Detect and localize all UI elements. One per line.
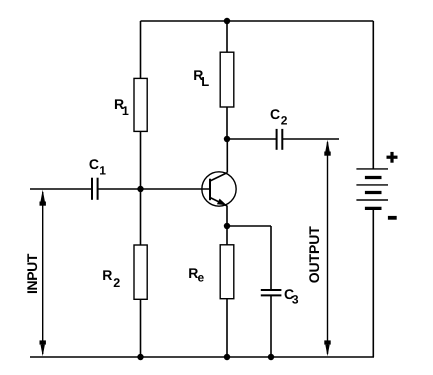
node: junction dot ground / Re bbox=[224, 354, 230, 360]
label C1 bbox=[89, 156, 106, 178]
wire: base node to transistor base bbox=[141, 188, 211, 190]
svg-text:1: 1 bbox=[99, 163, 106, 177]
wire: collector node to transistor collector bbox=[226, 139, 228, 173]
wire: emitter node to C3 branch bbox=[227, 225, 271, 227]
svg-text:C: C bbox=[89, 156, 99, 172]
wire: Re bottom to ground rail bbox=[226, 299, 228, 357]
node: junction dot emitter / Re / C3 bbox=[224, 223, 230, 229]
wire: right rail lower (from battery -) bbox=[372, 209, 374, 358]
capacitor C3 bbox=[261, 290, 282, 295]
resistor R1 bbox=[134, 78, 147, 131]
svg-text:e: e bbox=[198, 271, 205, 285]
svg-text:INPUT: INPUT bbox=[24, 253, 40, 294]
capacitor C2 bbox=[277, 129, 283, 150]
wire: emitter node to Re bbox=[226, 226, 228, 245]
svg-text:R: R bbox=[102, 267, 112, 283]
wire: emitter down to emitter node bbox=[226, 206, 228, 226]
battery plus terminal label bbox=[387, 152, 398, 163]
wire: top supply rail bbox=[141, 20, 374, 22]
wire: R1 bottom to base node bbox=[140, 131, 142, 189]
wire: RL top bbox=[226, 21, 228, 52]
wire: R2 bottom to ground rail bbox=[140, 299, 142, 357]
wire: R1 top bbox=[140, 21, 142, 78]
svg-text:L: L bbox=[201, 74, 209, 89]
node: junction dot ground / R2 bbox=[137, 354, 143, 360]
node: junction dot top rail / RL bbox=[224, 18, 230, 24]
node: junction dot collector / C2 bbox=[224, 136, 230, 142]
wire: input lead to C1 bbox=[30, 188, 92, 190]
svg-text:1: 1 bbox=[122, 104, 129, 118]
transistor Q1 bbox=[202, 172, 236, 206]
resistor Re bbox=[220, 245, 234, 299]
label R2 bbox=[102, 267, 120, 290]
resistor R2 bbox=[134, 245, 147, 299]
label Re bbox=[188, 265, 204, 285]
wire: bottom ground rail bbox=[30, 356, 374, 358]
wire: C3 bottom to ground rail bbox=[270, 295, 272, 357]
svg-text:C: C bbox=[270, 106, 280, 122]
svg-text:2: 2 bbox=[113, 276, 120, 290]
label R1 bbox=[114, 96, 129, 118]
svg-text:2: 2 bbox=[281, 113, 288, 127]
node: junction dot ground / C3 bbox=[268, 354, 274, 360]
battery B1 bbox=[356, 169, 388, 209]
wire: C3 branch down to C3 bbox=[270, 226, 272, 290]
svg-text:3: 3 bbox=[292, 293, 299, 307]
input measurement arrow bbox=[40, 190, 46, 356]
wire: right rail upper (to battery +) bbox=[372, 21, 374, 169]
wire: RL bottom to collector node bbox=[226, 107, 228, 139]
capacitor C1 bbox=[92, 178, 98, 200]
wire: base node to R2 bbox=[140, 189, 142, 245]
label RL bbox=[193, 67, 209, 89]
label C3 bbox=[284, 286, 299, 307]
resistor RL bbox=[220, 52, 234, 107]
svg-text:OUTPUT: OUTPUT bbox=[306, 226, 322, 284]
wire: C1 to base node bbox=[98, 188, 141, 190]
battery minus terminal label bbox=[388, 216, 397, 220]
label C2 bbox=[270, 106, 288, 127]
wire: collector node to C2 bbox=[227, 138, 277, 140]
output measurement arrow bbox=[324, 140, 330, 356]
wire: C2 to output bbox=[282, 138, 339, 140]
node: junction dot base node bbox=[137, 186, 143, 192]
